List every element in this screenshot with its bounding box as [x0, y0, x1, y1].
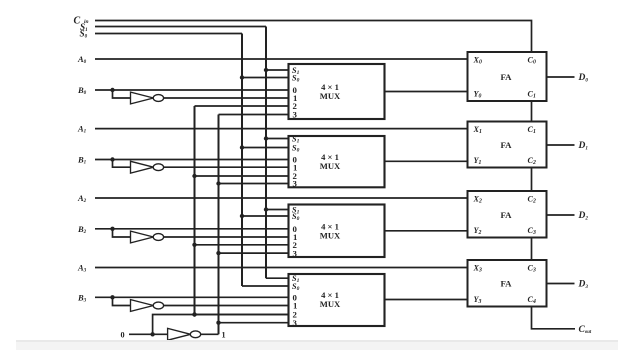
svg-text:A2: A2	[77, 193, 87, 204]
svg-text:Y2: Y2	[474, 226, 482, 236]
svg-text:3: 3	[293, 179, 298, 189]
svg-text:A1: A1	[77, 124, 87, 135]
svg-text:X2: X2	[473, 195, 482, 205]
wire 0-bus to MUX2 data input 2	[195, 244, 289, 246]
svg-text:Y3: Y3	[474, 295, 482, 305]
junction on B0 at inverter branch	[110, 88, 114, 92]
svg-text:B0: B0	[77, 85, 87, 96]
full adder FA0 box	[468, 52, 547, 101]
svg-text:D2: D2	[578, 211, 589, 221]
wire S1 bus to MUX1 S1 pin	[266, 138, 289, 140]
svg-text:S0: S0	[292, 143, 300, 153]
svg-text:3: 3	[293, 110, 298, 120]
wire branch from B1 down to inverter U1 input	[113, 160, 131, 168]
wire 1-bus to MUX3 data input 3	[219, 322, 289, 324]
wire MUX0 output to FA0 Y0 pin	[385, 91, 468, 93]
inverter U4 (generates constant 1 from 0)	[168, 328, 201, 340]
wire S1 select bus vertical	[265, 27, 267, 279]
wire S0: from label to S0 bus top elbow	[95, 33, 242, 35]
svg-text:B1: B1	[77, 155, 87, 166]
svg-text:C2: C2	[528, 195, 536, 205]
svg-text:X3: X3	[473, 264, 482, 274]
junction 0-bus meets 0 feed line	[192, 312, 196, 316]
wire FA0 sum output to D0	[547, 76, 575, 78]
wire A3 from label to FA X3 pin	[95, 267, 468, 269]
svg-text:C3: C3	[528, 226, 536, 236]
wire 1-bus to MUX2 data input 3	[219, 252, 289, 254]
wire MUX2 output to FA2 Y2 pin	[385, 230, 468, 232]
svg-text:3: 3	[293, 318, 298, 328]
svg-text:C3: C3	[528, 264, 536, 274]
svg-text:D3: D3	[578, 280, 589, 290]
svg-text:C1: C1	[528, 90, 536, 100]
svg-text:1: 1	[222, 330, 226, 339]
wire A2 from label to FA X2 pin	[95, 197, 468, 199]
mux MUX3 (4x1 multiplexer) box	[289, 274, 385, 326]
svg-text:MUX: MUX	[320, 230, 341, 240]
svg-text:C4: C4	[528, 295, 536, 305]
wire S0 bus to MUX2 S0 pin	[242, 215, 289, 217]
wire carry C1 from FA0 to FA1	[531, 101, 533, 122]
svg-text:C2: C2	[528, 156, 536, 166]
wire carry C4 from FA3 down and right to Cout	[532, 307, 576, 329]
wire 0-bus to MUX1 data input 2	[195, 175, 289, 177]
wire S0 select bus vertical	[241, 34, 243, 287]
wire B0' from inverter U0 output to MUX0 data input 1	[164, 97, 289, 99]
wire S1 bus to MUX3 S1 pin	[266, 277, 289, 279]
wire constant-0 up and right to MUX3 input 2 row	[153, 315, 289, 335]
svg-text:FA: FA	[500, 140, 512, 150]
wire S1 bus to MUX0 S1 pin	[266, 69, 289, 71]
junction 0-bus to MUX2	[192, 243, 196, 247]
svg-text:D0: D0	[578, 73, 589, 83]
svg-text:MUX: MUX	[320, 161, 341, 171]
junction 1-bus to MUX1	[216, 181, 220, 185]
wire FA3 sum output to D3	[547, 283, 575, 285]
junction on B2 at inverter branch	[110, 227, 114, 231]
junction S1 bus to MUX0	[264, 68, 268, 72]
wire 0-bus to MUX3 data input 2	[195, 314, 289, 316]
svg-text:MUX: MUX	[320, 91, 341, 101]
wire A1 from label to FA X1 pin	[95, 128, 468, 130]
svg-text:B2: B2	[77, 224, 87, 235]
wire constant 0 into bottom inverter	[129, 333, 168, 335]
junction on B3 at inverter branch	[110, 295, 114, 299]
full adder FA2 box	[468, 191, 547, 238]
wire B2 from label to MUX2 data input 0	[95, 228, 289, 230]
wire branch from B3 down to inverter U3 input	[113, 297, 131, 305]
svg-text:3: 3	[293, 248, 298, 258]
wire B3 from label to MUX3 data input 0	[95, 296, 289, 298]
svg-text:0: 0	[121, 330, 125, 339]
wire B0 from label to MUX0 data input 0	[95, 89, 289, 91]
wire MUX1 output to FA1 Y1 pin	[385, 160, 468, 162]
junction S1 bus to MUX2	[264, 207, 268, 211]
wire S0 bus to MUX3 S0 pin	[242, 285, 289, 287]
inverter U2 (complements B2)	[131, 231, 164, 243]
wire B1' from inverter U1 output to MUX1 data input 1	[164, 166, 289, 168]
svg-text:X0: X0	[473, 56, 482, 66]
wire 1-bus to MUX1 data input 3	[219, 183, 289, 185]
wire 0-bus elbow into MUX0 data input 2	[195, 105, 289, 107]
inverter U0 (complements B0)	[131, 92, 164, 104]
wire 1-bus elbow into MUX0 data input 3	[219, 114, 289, 116]
svg-text:X1: X1	[473, 125, 482, 135]
svg-text:FA: FA	[500, 279, 512, 289]
junction S0 bus to MUX2	[240, 214, 244, 218]
svg-text:B3: B3	[77, 292, 87, 303]
svg-text:MUX: MUX	[320, 299, 341, 309]
svg-text:A3: A3	[77, 263, 87, 274]
wire carry C2 from FA1 to FA2	[531, 168, 533, 192]
svg-text:D1: D1	[578, 141, 589, 151]
junction 1-bus to MUX3	[216, 321, 220, 325]
inverter U1 (complements B1)	[131, 161, 164, 173]
wire S0 bus to MUX1 S0 pin	[242, 147, 289, 149]
mux MUX0 (4x1 multiplexer) box	[289, 64, 385, 119]
svg-text:Cout: Cout	[579, 325, 592, 335]
wire constant 1 from inverter U4 to 1-bus elbow	[201, 333, 219, 335]
wire branch from B2 down to inverter U2 input	[113, 229, 131, 237]
wire S0 bus to MUX0 S0 pin	[242, 77, 289, 79]
junction S0 bus to MUX0	[240, 75, 244, 79]
junction constant-0 branch	[150, 332, 154, 336]
bottom gray scrollbar strip	[16, 340, 618, 350]
junction on B1 at inverter branch	[110, 157, 114, 161]
wire S1: from label to S1 bus top elbow	[95, 26, 266, 28]
svg-text:FA: FA	[500, 210, 512, 220]
wire S1 bus to MUX2 S1 pin	[266, 209, 289, 211]
junction 0-bus to MUX1	[192, 174, 196, 178]
wire B3' from inverter U3 output to MUX3 data input 1	[164, 305, 289, 307]
wire FA1 sum output to D1	[547, 144, 575, 146]
wire branch from B0 down to inverter U0 input	[113, 90, 131, 98]
wire MUX3 output to FA3 Y3 pin	[385, 299, 468, 301]
wire carry C3 from FA2 to FA3	[531, 238, 533, 261]
svg-text:C1: C1	[528, 125, 536, 135]
junction 0-bus to MUX3	[192, 312, 196, 316]
inverter U3 (complements B3)	[131, 300, 164, 312]
wire constant-0 bus vertical	[194, 106, 196, 315]
svg-text:A0: A0	[77, 54, 87, 65]
junction 1-bus to MUX2	[216, 251, 220, 255]
svg-text:Y1: Y1	[474, 156, 482, 166]
wire constant-1 bus vertical	[218, 115, 220, 335]
wire B2' from inverter U2 output to MUX2 data input 1	[164, 236, 289, 238]
mux MUX1 (4x1 multiplexer) box	[289, 136, 385, 187]
svg-text:Y0: Y0	[474, 90, 482, 100]
wire B1 from label to MUX1 data input 0	[95, 159, 289, 161]
wire FA2 sum output to D2	[547, 214, 575, 216]
junction S1 bus to MUX1	[264, 136, 268, 140]
wire A0 from label to FA X0 pin	[95, 58, 468, 60]
full adder FA3 box	[468, 260, 547, 307]
mux MUX2 (4x1 multiplexer) box	[289, 205, 385, 258]
full adder FA1 box	[468, 122, 547, 168]
wire Cin: from label right then down to FA0 C0 pin	[95, 21, 532, 53]
junction S0 bus to MUX1	[240, 145, 244, 149]
svg-text:C0: C0	[528, 56, 536, 66]
svg-text:FA: FA	[500, 72, 512, 82]
